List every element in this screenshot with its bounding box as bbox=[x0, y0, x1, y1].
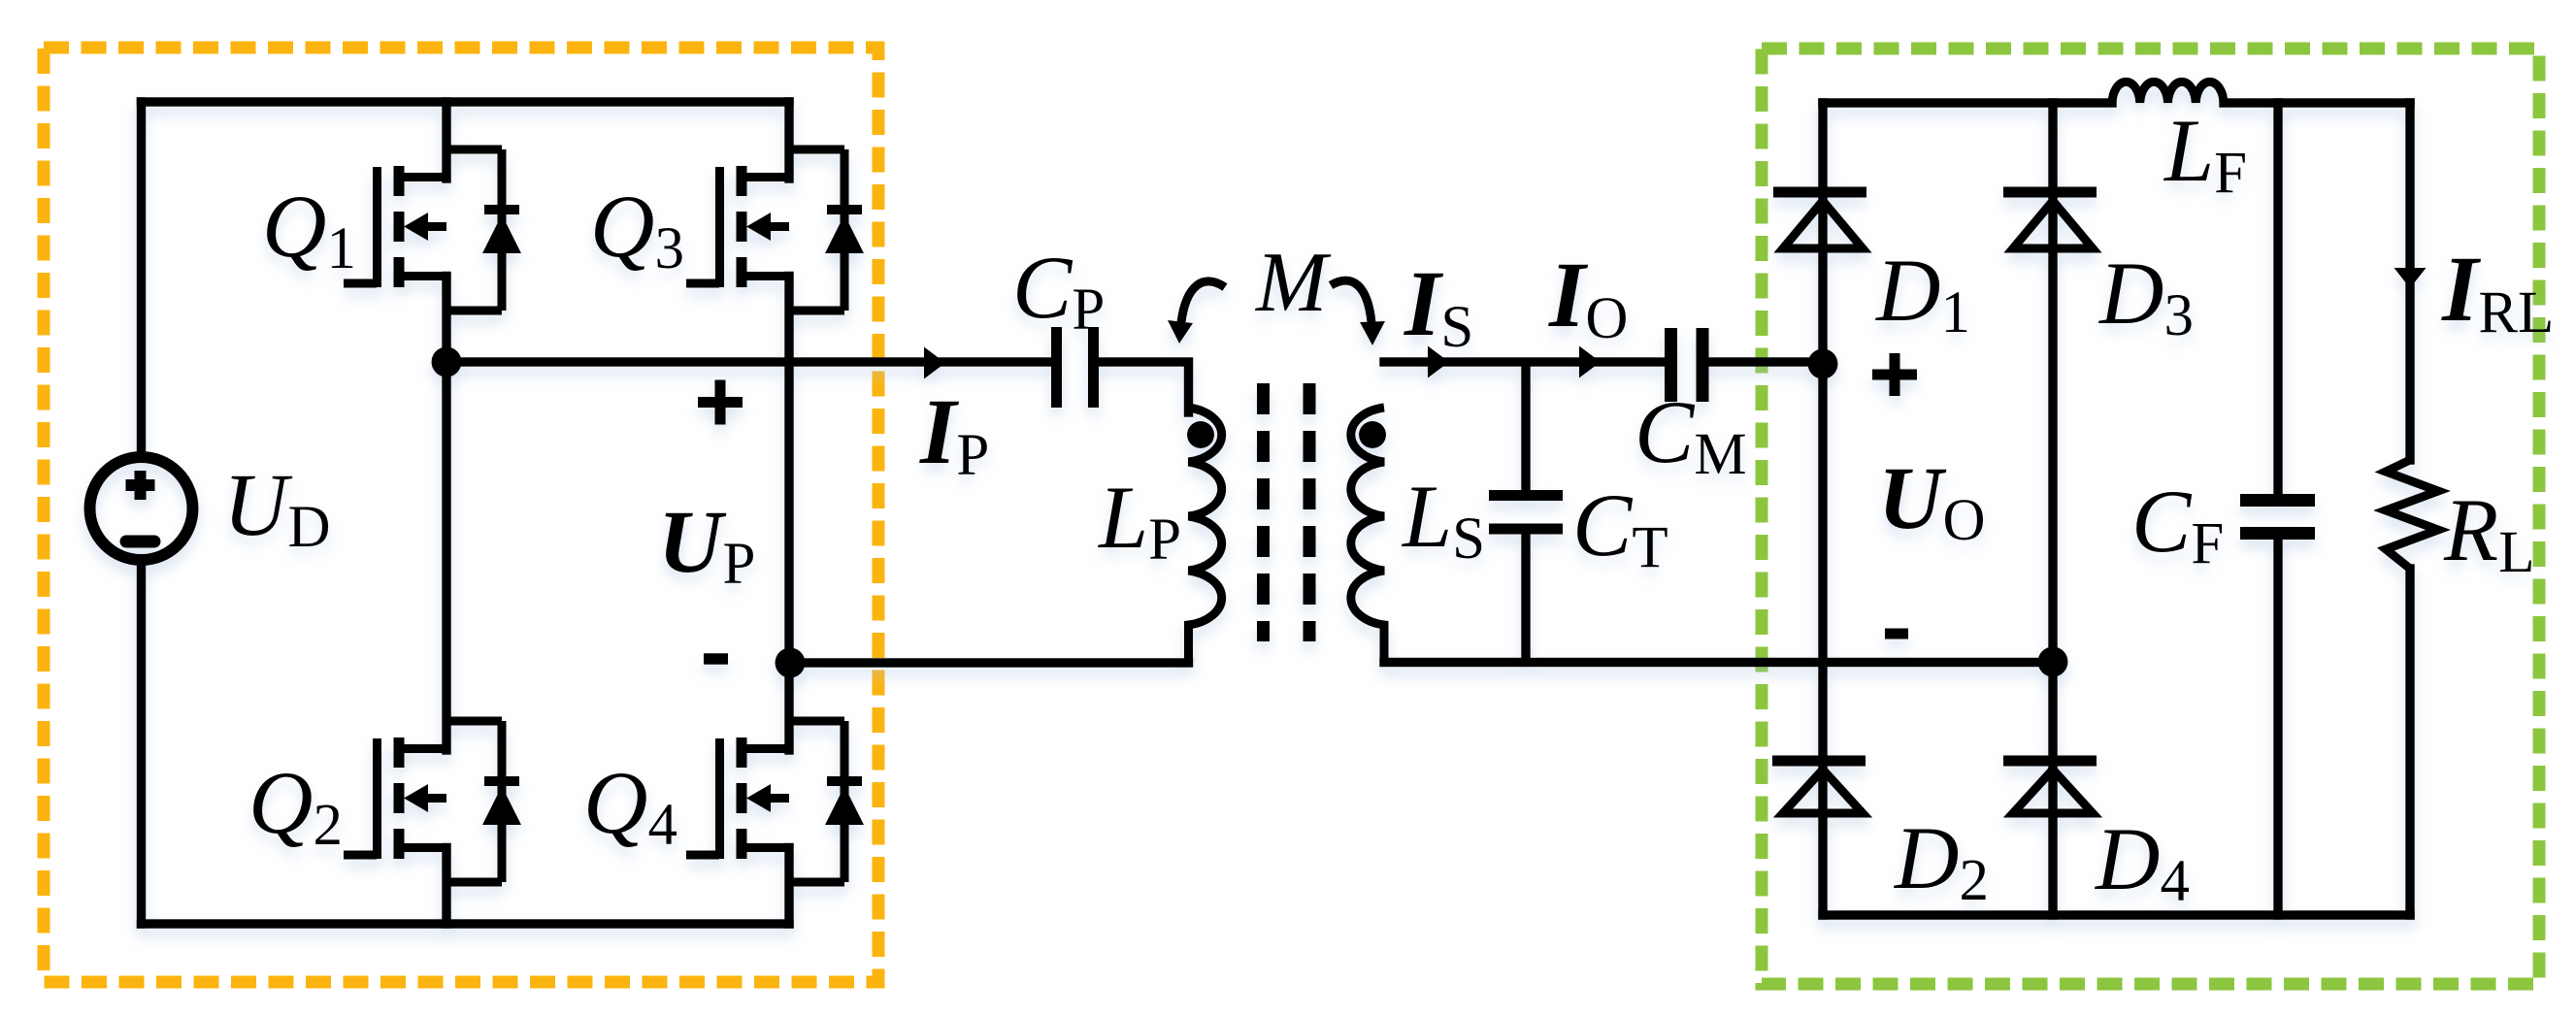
node D3-D4 junction dot bbox=[2038, 647, 2068, 677]
inductor L_P dot bbox=[1187, 421, 1214, 448]
transistor Q2 bbox=[344, 721, 521, 882]
node B dot bbox=[776, 648, 806, 678]
inductor L_F bbox=[2112, 82, 2224, 103]
transistor Q4 bbox=[686, 721, 864, 882]
inductor L_P bbox=[1189, 408, 1222, 663]
resistor R_L bbox=[2386, 460, 2438, 569]
diode D4 bbox=[2003, 756, 2097, 767]
rectifier dashed box bbox=[1762, 49, 2539, 984]
wire rectifier DC+ top bus bbox=[1823, 98, 2112, 108]
label plus U_P bbox=[698, 380, 743, 425]
source U_D minus bbox=[126, 536, 154, 548]
node D1-D2 junction dot bbox=[1808, 349, 1838, 379]
capacitor C_T bbox=[1489, 496, 1563, 530]
wire Q1 source to node A bbox=[442, 277, 451, 363]
current arrow I_S bbox=[1428, 346, 1449, 378]
current arrow I_RL bbox=[2394, 268, 2427, 288]
capacitor C_P bbox=[1057, 327, 1094, 408]
wire Q2 source stub bbox=[442, 848, 451, 925]
capacitor C_T column top bbox=[1521, 362, 1531, 495]
wire D4 column bbox=[2048, 662, 2058, 915]
svg-text:M: M bbox=[1254, 236, 1332, 330]
wire phase A output bbox=[446, 357, 1051, 367]
wire D1 column bbox=[1818, 103, 1828, 365]
wire DC- left rail bbox=[137, 566, 147, 924]
wire C_P to L_P bbox=[1099, 362, 1189, 412]
wire C_F top column bbox=[2273, 103, 2283, 495]
node A dot bbox=[432, 347, 462, 377]
wire Q3 source to node B bbox=[784, 277, 794, 664]
source U_D circle bbox=[90, 457, 193, 560]
inductor L_S dot bbox=[1359, 421, 1386, 448]
wire Q4 drain stub bbox=[784, 663, 794, 750]
wire L_F to R_L corner bbox=[2224, 98, 2410, 108]
wire D3 column bbox=[2048, 103, 2058, 662]
wire L_S top output bbox=[1384, 357, 1664, 367]
wire R_L top column bbox=[2405, 103, 2415, 460]
wire C_M to rectifier node bbox=[1709, 357, 1823, 367]
wire phase B return to L_P bottom bbox=[789, 658, 1189, 668]
transformer core bbox=[1264, 383, 1310, 641]
coupling arrow left bbox=[1181, 281, 1225, 322]
wire D2 column bbox=[1818, 365, 1828, 915]
capacitor C_F bbox=[2240, 501, 2315, 534]
wire R_L bottom column bbox=[2405, 569, 2415, 915]
current arrow I_P bbox=[924, 347, 945, 379]
wire top bus bbox=[142, 97, 790, 107]
diode D3 bbox=[2003, 187, 2097, 198]
capacitor C_T column bottom bbox=[1521, 529, 1531, 663]
wire Q2 drain stub bbox=[442, 362, 451, 750]
wire bottom bus bbox=[142, 919, 790, 929]
wire rectifier DC- bottom bus bbox=[1823, 910, 2410, 920]
transistor Q3 bbox=[686, 149, 864, 311]
coupling arrow right bbox=[1331, 280, 1371, 322]
wire Q3 drain stub bbox=[784, 102, 794, 179]
wire L_S bottom return bbox=[1384, 658, 2053, 668]
label plus U_O bbox=[1872, 353, 1917, 396]
capacitor C_M bbox=[1671, 328, 1703, 402]
wire DC+ left rail bbox=[137, 102, 147, 451]
label minus U_P bbox=[704, 653, 728, 665]
wire Q1 drain stub bbox=[442, 102, 451, 179]
source U_D plus bbox=[126, 471, 155, 500]
current arrow I_O bbox=[1579, 346, 1601, 378]
inverter dashed box bbox=[44, 48, 878, 982]
diode D1 bbox=[1773, 187, 1866, 198]
diode D2 bbox=[1772, 756, 1866, 767]
inductor L_S bbox=[1351, 408, 1384, 663]
transistor Q1 bbox=[344, 149, 521, 311]
wire C_F bottom column bbox=[2273, 537, 2283, 915]
wire Q4 source stub bbox=[784, 848, 794, 925]
label minus U_O bbox=[1885, 629, 1908, 639]
